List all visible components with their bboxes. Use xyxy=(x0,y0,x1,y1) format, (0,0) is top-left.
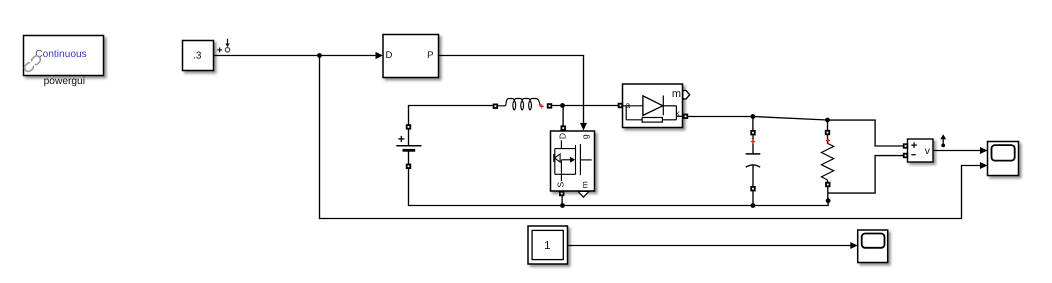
wire: MOSFET S to bottom rail xyxy=(561,196,563,205)
wire: PWM P output to MOSFET gate xyxy=(439,56,584,124)
MOSFET m output port (hollow triangle) xyxy=(578,191,589,197)
scope1 block (bottom) xyxy=(858,230,888,263)
svg-text:m: m xyxy=(672,88,681,100)
resistor bottom port xyxy=(825,182,830,187)
resistor + polarity mark (red) xyxy=(826,138,831,143)
arrowhead into Scope1 input xyxy=(850,242,857,249)
inductor right port xyxy=(547,103,552,108)
wire: resistor bottom to voltmeter - input xyxy=(828,156,903,194)
svg-text:1: 1 xyxy=(544,240,550,252)
svg-text:v: v xyxy=(925,146,931,157)
wire: top rail capacitor to resistor (slightly diagonal) xyxy=(753,117,828,121)
inductor L1 coil xyxy=(498,99,541,110)
node junction on duty-cycle wire xyxy=(317,53,322,58)
svg-text:S: S xyxy=(555,182,565,188)
diode block D1 xyxy=(623,84,683,128)
constant block .3 (duty cycle) xyxy=(183,41,214,71)
wire: bottom rail MOSFET S to capacitor bottom xyxy=(563,205,753,207)
resistor top port xyxy=(825,130,830,135)
logging badge (up arrow with dot) on v output xyxy=(940,134,946,147)
svg-text:D: D xyxy=(386,50,393,61)
MOSFET D port square xyxy=(561,125,566,130)
wire: battery + up and right to inductor xyxy=(409,106,494,125)
battery V1 (DC voltage source) xyxy=(396,130,421,164)
constant block 1 xyxy=(528,226,568,264)
powergui block xyxy=(24,36,104,76)
svg-text:g: g xyxy=(580,134,590,139)
svg-text:Continuous: Continuous xyxy=(35,49,87,60)
svg-text:P: P xyxy=(427,50,433,61)
svg-text:m: m xyxy=(579,181,589,188)
capacitor bottom port xyxy=(750,186,755,191)
capacitor C1 branch xyxy=(746,117,761,206)
scope block (top right) xyxy=(988,142,1019,176)
resistor R1 branch xyxy=(821,120,833,201)
node junction bottom rail at MOSFET source xyxy=(560,203,565,208)
voltmeter - port xyxy=(903,153,908,158)
wire: voltmeter v output to Scope input 1 xyxy=(933,150,980,152)
wire: bottom rail capacitor to resistor bottom xyxy=(753,201,828,206)
MOSFET body diode xyxy=(554,154,560,162)
capacitor + polarity mark (red) xyxy=(751,139,756,144)
arrowhead into Scope input 2 xyxy=(980,162,988,169)
wire: Constant 1 to Scope1 (bottom) xyxy=(568,245,851,247)
node junction top rail at capacitor xyxy=(751,114,756,119)
arrowhead into MOSFET g port xyxy=(580,123,587,131)
wire: feedback duty-cycle to Scope input 2 xyxy=(320,56,981,219)
MOSFET port labels (rotated) xyxy=(555,133,590,188)
MOSFET S port square xyxy=(559,191,564,196)
diode a port xyxy=(618,103,623,108)
node junction at resistor bottom xyxy=(826,198,831,203)
wire: .3 output to PWM D input xyxy=(214,55,377,57)
MOSFET block xyxy=(551,131,595,191)
voltmeter + port xyxy=(903,143,908,148)
MOSFET channel arrow xyxy=(570,157,575,163)
node junction top rail at resistor xyxy=(825,118,830,123)
wire: inductor right to Diode a xyxy=(552,105,619,107)
wire: battery - down and bottom rail to MOSFET S xyxy=(409,169,563,206)
inductor left port xyxy=(493,104,498,109)
voltmeter + label xyxy=(911,142,917,154)
svg-text:powergui: powergui xyxy=(44,76,85,87)
diode m output port (pentagon) xyxy=(683,91,690,99)
svg-text:D: D xyxy=(557,133,567,139)
battery - port xyxy=(406,164,411,169)
diode internal symbol with RC snubber xyxy=(623,96,684,123)
svg-text:.3: .3 xyxy=(193,50,202,61)
broken-link icon in powergui xyxy=(23,54,42,73)
diode k port xyxy=(683,114,688,119)
port-value badge (+ circle with down arrow) at .3 output xyxy=(217,39,229,53)
PWM generator block xyxy=(383,35,439,78)
wire: Diode k to capacitor top xyxy=(688,116,753,118)
inductor + polarity mark (red) xyxy=(540,104,544,108)
arrowhead into Scope input 1 xyxy=(980,147,988,154)
node junction above MOSFET drain xyxy=(560,103,565,108)
voltage measurement block xyxy=(908,139,934,162)
capacitor top port xyxy=(750,130,755,135)
wire: junction down to MOSFET D port xyxy=(562,106,564,127)
wire: resistor top junction to voltmeter + input xyxy=(828,120,904,146)
MOSFET internal symbol xyxy=(555,140,592,181)
arrowhead into D input xyxy=(376,52,383,59)
battery + port xyxy=(406,124,411,129)
node junction bottom rail at capacitor xyxy=(751,203,756,208)
